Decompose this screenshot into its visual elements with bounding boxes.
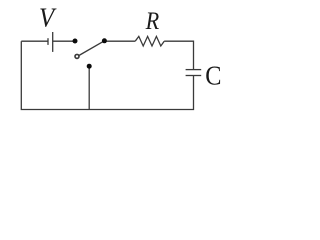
svg-text:V: V	[39, 3, 57, 33]
svg-text:R: R	[145, 8, 160, 35]
svg-text:C: C	[205, 60, 221, 91]
